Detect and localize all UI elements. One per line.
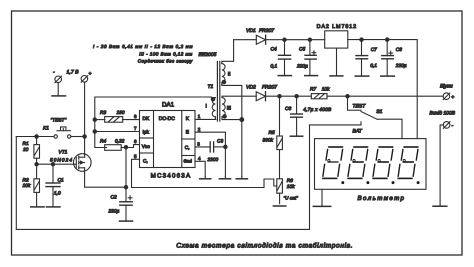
wire bottom rail <box>16 125 309 229</box>
svg-text:180: 180 <box>117 110 125 116</box>
svg-text:DK: DK <box>143 116 150 122</box>
ground C5 <box>305 75 318 77</box>
wire pin4 gnd <box>195 161 205 176</box>
svg-text:BAT: BAT <box>353 128 363 134</box>
node C8 <box>386 38 389 41</box>
svg-text:DA1: DA1 <box>162 102 175 109</box>
vcc rail x95 <box>95 97 212 148</box>
svg-text:III: III <box>227 106 231 112</box>
resistor R2 <box>23 177 40 192</box>
pushbutton K1 <box>43 118 85 139</box>
node winding III gnd <box>240 118 244 122</box>
capacitor C3 <box>195 138 225 163</box>
svg-text:2200: 2200 <box>207 157 219 163</box>
ground DA2 <box>330 75 343 77</box>
display digit 2 <box>348 147 369 184</box>
node C5 <box>308 38 311 41</box>
wire VT1 source <box>85 168 126 187</box>
svg-text:360k: 360k <box>263 138 274 144</box>
resistor R3 <box>95 110 140 122</box>
winding II <box>222 40 242 120</box>
svg-text:C3: C3 <box>217 138 223 144</box>
svg-text:FR207: FR207 <box>259 28 274 34</box>
svg-text:1,7 В: 1,7 В <box>67 70 80 76</box>
display digit 1 <box>323 147 344 184</box>
capacitor C5 <box>296 40 316 76</box>
terminal X2 battery plus <box>81 71 91 82</box>
display digit 4 <box>398 147 419 184</box>
ground C6 <box>290 135 302 137</box>
svg-text:2: 2 <box>198 127 201 132</box>
switch contact BAT <box>310 122 363 135</box>
resistor R5 <box>263 96 283 179</box>
svg-text:C8: C8 <box>396 47 402 53</box>
svg-text:III - 100 Вит 0,12 мм: III - 100 Вит 0,12 мм <box>139 52 192 57</box>
ground C8 <box>381 75 395 77</box>
node S1 tap <box>346 95 349 98</box>
svg-text:Сердечник без зазору: Сердечник без зазору <box>138 59 193 64</box>
wire VT1 drain <box>84 137 86 158</box>
svg-text:Щупи: Щупи <box>440 84 453 90</box>
svg-text:DC-DC: DC-DC <box>159 116 175 122</box>
node C4 <box>283 38 286 41</box>
svg-text:Вольтметр: Вольтметр <box>358 195 405 202</box>
svg-text:R5: R5 <box>269 130 275 136</box>
svg-text:Gnd: Gnd <box>184 159 193 164</box>
svg-text:10k: 10k <box>23 183 31 189</box>
svg-text:II: II <box>228 72 231 78</box>
node R5 top <box>278 95 281 98</box>
ground C1 <box>47 206 61 208</box>
wire K1 row left <box>16 136 54 138</box>
svg-text:R3: R3 <box>100 110 106 116</box>
capacitor C6 <box>285 96 332 136</box>
wire pin5 feedback <box>132 159 265 187</box>
svg-text:C5: C5 <box>299 47 305 53</box>
wire pin7 <box>95 131 140 133</box>
svg-text:EE2005: EE2005 <box>199 52 217 58</box>
ground pin4 <box>200 178 211 180</box>
svg-text:0,1: 0,1 <box>370 63 377 69</box>
svg-text:0,1: 0,1 <box>271 64 278 70</box>
wire 12V rail <box>348 40 417 139</box>
winding III <box>222 96 256 119</box>
ground C7 <box>355 75 369 77</box>
svg-text:8: 8 <box>134 114 137 119</box>
resistor R6 trimmer <box>264 178 298 204</box>
regulator DA2 LM7812 <box>317 24 357 48</box>
node R3 tap <box>93 118 96 121</box>
ground winding <box>236 178 247 180</box>
svg-text:C4: C4 <box>271 47 277 53</box>
svg-text:E: E <box>186 130 189 136</box>
svg-text:VT1: VT1 <box>59 149 68 155</box>
node Vcc C2 <box>124 186 127 189</box>
op-amp U1 converter DA1 MC34063A <box>140 102 196 180</box>
svg-text:R4: R4 <box>100 139 106 145</box>
svg-text:I - 20 Вит 0,41 мм II - 12 В: I - 20 Вит 0,41 мм II - 12 Вит 0,2 мм <box>93 44 193 49</box>
svg-text:C1: C1 <box>58 178 64 184</box>
capacitor C1 <box>46 164 64 207</box>
svg-text:+: + <box>451 95 454 101</box>
terminal probe plus <box>443 93 454 101</box>
display digit 3 <box>373 147 394 184</box>
terminal X1 battery minus <box>53 70 62 83</box>
svg-text:4,7µ x 400В: 4,7µ x 400В <box>303 107 332 113</box>
diode VD1 FR207 <box>234 28 285 44</box>
svg-text:R7: R7 <box>310 87 316 93</box>
svg-text:C6: C6 <box>285 106 291 112</box>
wire DA2 gnd <box>336 48 338 76</box>
ground pin2 C3 <box>219 178 230 180</box>
terminal out minus <box>443 122 453 129</box>
wire top rail <box>285 39 325 41</box>
svg-text:R1: R1 <box>23 141 29 147</box>
capacitor C8 <box>382 40 407 77</box>
svg-text:R6: R6 <box>287 178 293 184</box>
winding I <box>206 98 216 120</box>
svg-text:10k: 10k <box>287 184 295 190</box>
ground C2 <box>120 220 133 222</box>
svg-text:Ipk: Ipk <box>143 129 150 135</box>
node R1 top <box>35 135 38 138</box>
resistor R7 <box>310 87 443 99</box>
node R4 right <box>124 146 127 149</box>
wire terminal minus to ground <box>57 83 59 96</box>
wire R2 to ground <box>36 192 38 207</box>
resistor R4 <box>100 139 140 151</box>
svg-text:FR207: FR207 <box>262 84 277 90</box>
svg-text:Схема тестера світлодіодів та: Схема тестера світлодіодів та стабілітро… <box>176 243 352 250</box>
node K1 right <box>83 135 86 138</box>
node C1 tap <box>51 163 54 166</box>
svg-text:0,22: 0,22 <box>115 139 125 145</box>
svg-text:220µ: 220µ <box>108 209 120 215</box>
node C3 right <box>224 145 227 148</box>
svg-text:T1: T1 <box>208 84 214 90</box>
wire gate <box>37 163 74 165</box>
svg-text:I: I <box>206 104 207 110</box>
svg-text:10k: 10k <box>322 87 330 93</box>
svg-text:4: 4 <box>198 156 201 161</box>
svg-text:"U out": "U out" <box>284 195 299 200</box>
ground C4 <box>278 75 291 77</box>
svg-text:1,0: 1,0 <box>54 191 61 197</box>
svg-text:C,: C, <box>185 145 190 151</box>
ground out minus <box>433 205 447 207</box>
svg-text:R2: R2 <box>23 177 29 183</box>
wire out minus to ground <box>440 125 443 206</box>
svg-text:VD2: VD2 <box>246 84 256 90</box>
svg-text:7: 7 <box>134 126 137 131</box>
diode VD2 FR207 <box>246 84 311 100</box>
wire left sense down <box>15 137 17 230</box>
svg-text:"TEST": "TEST" <box>51 118 67 124</box>
svg-text:220µ: 220µ <box>395 63 407 69</box>
svg-text:C2: C2 <box>111 195 117 201</box>
svg-text:TEST: TEST <box>353 104 367 110</box>
resistor R1 <box>23 137 40 159</box>
svg-text:Vcc: Vcc <box>142 144 151 150</box>
ground R6 <box>273 205 285 207</box>
svg-text:VD1: VD1 <box>246 28 256 34</box>
svg-text:220µ: 220µ <box>296 64 308 70</box>
svg-text:C,: C, <box>143 159 148 165</box>
wire node up to R4 <box>125 147 127 187</box>
svg-text:K1: K1 <box>43 125 49 131</box>
node C6 top <box>295 95 298 98</box>
wire pin2 <box>195 132 225 176</box>
svg-text:10: 10 <box>23 147 29 153</box>
node gate divider <box>35 163 38 166</box>
svg-text:S1: S1 <box>376 109 382 115</box>
node C7 <box>360 38 363 41</box>
transformer T1 <box>199 52 220 121</box>
svg-text:3: 3 <box>197 141 200 146</box>
capacitor C7 <box>356 40 377 77</box>
capacitor C4 <box>271 40 291 76</box>
wire terminal plus down to K1 node <box>84 82 86 136</box>
node pin7 tap <box>93 130 96 133</box>
capacitor C2 <box>108 187 133 221</box>
ground batt minus <box>52 95 66 97</box>
svg-text:5: 5 <box>134 154 137 159</box>
ground voltmeter <box>313 205 330 207</box>
svg-text:C7: C7 <box>371 47 377 53</box>
switch S1 <box>348 96 403 138</box>
svg-text:+: + <box>89 71 92 77</box>
ground R2 <box>31 206 44 208</box>
voltmeter box <box>315 139 427 190</box>
wire voltmeter left pin to ground <box>321 189 323 206</box>
wire pin1 to winding I <box>195 118 216 120</box>
svg-text:6: 6 <box>134 139 137 144</box>
svg-text:1: 1 <box>198 114 201 119</box>
svg-text:DA2 LM7812: DA2 LM7812 <box>317 24 357 30</box>
svg-text:50N024: 50N024 <box>50 157 72 163</box>
wire winding gnd down <box>241 120 243 177</box>
svg-text:Вихід 100В: Вихід 100В <box>430 111 456 117</box>
transistor VT1 <box>50 149 91 171</box>
